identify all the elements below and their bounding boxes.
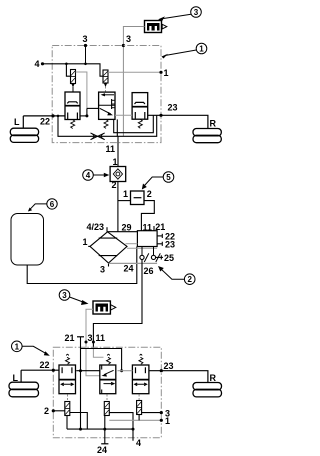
valve A right wire bbox=[80, 115, 87, 117]
svg-text:2: 2 bbox=[44, 406, 49, 416]
svg-text:1: 1 bbox=[15, 342, 20, 351]
port 24 bbox=[104, 416, 106, 444]
spring above valve F bbox=[139, 354, 143, 364]
wire item4 down bbox=[117, 182, 119, 232]
wire valve B drain bbox=[116, 119, 118, 136]
port 23 stub bbox=[157, 240, 175, 250]
svg-text:23: 23 bbox=[164, 361, 174, 371]
svg-text:4: 4 bbox=[86, 171, 91, 180]
svg-text:5: 5 bbox=[166, 173, 171, 182]
svg-text:2: 2 bbox=[147, 189, 152, 199]
pilot valve 2 bbox=[103, 70, 108, 92]
pilot dashed links bbox=[67, 395, 69, 402]
svg-text:1: 1 bbox=[199, 45, 204, 54]
svg-text:29: 29 bbox=[122, 223, 132, 233]
port 21 plug bbox=[65, 333, 85, 429]
svg-text:24: 24 bbox=[97, 445, 107, 455]
L caliper (front left) bbox=[10, 117, 38, 142]
svg-text:23: 23 bbox=[165, 240, 175, 250]
svg-text:11: 11 bbox=[106, 144, 116, 154]
master cylinder (diamond) bbox=[88, 227, 127, 266]
spring above valve D bbox=[66, 354, 70, 364]
svg-text:L: L bbox=[13, 373, 19, 383]
valve C (right inlet valve) bbox=[132, 93, 148, 120]
port 25 stub bbox=[156, 253, 174, 263]
svg-text:2: 2 bbox=[112, 180, 117, 190]
port 22 stub bbox=[157, 232, 175, 242]
wire branch to pilot 1 bbox=[66, 64, 70, 76]
svg-text:25: 25 bbox=[164, 253, 174, 263]
svg-text:3: 3 bbox=[194, 8, 199, 17]
svg-text:4: 4 bbox=[35, 59, 40, 69]
svg-text:1: 1 bbox=[113, 157, 118, 167]
pump unit block bbox=[137, 226, 157, 247]
wire relief to line 3 bbox=[86, 309, 100, 375]
wire node3 down bbox=[85, 46, 87, 64]
spring under valve A bbox=[71, 120, 75, 129]
valve B (middle valve) bbox=[99, 92, 115, 119]
valve D (rear left inlet) bbox=[59, 365, 76, 394]
spring under valve B bbox=[104, 119, 108, 128]
bleed point 25 (right) bbox=[151, 253, 160, 262]
callout 3 (rear relief valve) bbox=[59, 290, 88, 305]
callout 6 bbox=[28, 199, 57, 212]
svg-text:R: R bbox=[210, 119, 217, 129]
gray rail 24 bbox=[109, 262, 158, 264]
bottom rail bbox=[67, 428, 133, 430]
svg-text:3: 3 bbox=[126, 34, 131, 44]
svg-text:L: L bbox=[14, 117, 20, 127]
R caliper (front right) bbox=[193, 119, 221, 143]
wires valve row bottom bbox=[76, 370, 99, 372]
svg-text:6: 6 bbox=[50, 200, 55, 209]
valve G bottom pin bbox=[66, 416, 68, 430]
pilot return gray wires bbox=[76, 72, 87, 108]
brake switch item 5 bbox=[131, 191, 145, 205]
valve C right wire to R bbox=[148, 115, 208, 128]
spring under valve C bbox=[138, 119, 142, 128]
svg-text:22: 22 bbox=[40, 360, 50, 370]
node 11 wire down bbox=[117, 136, 119, 166]
callout 5 bbox=[142, 172, 174, 190]
svg-text:26: 26 bbox=[144, 266, 154, 276]
svg-text:R: R bbox=[210, 373, 217, 383]
valve F (rear right inlet) bbox=[132, 365, 149, 394]
gray link under pump bbox=[127, 247, 157, 249]
callout 4 bbox=[83, 170, 110, 181]
pilot valve G bbox=[65, 402, 70, 416]
accumulator item 6 bbox=[11, 214, 44, 266]
svg-text:1: 1 bbox=[123, 189, 128, 199]
gray link diamond to pump bbox=[126, 243, 138, 245]
svg-text:1: 1 bbox=[165, 416, 170, 426]
wire from relief valve to node 3 bbox=[123, 27, 144, 137]
svg-text:2: 2 bbox=[187, 275, 192, 284]
orifice (bowtie) bbox=[91, 133, 105, 140]
valve I bottom pin bbox=[138, 415, 140, 421]
svg-text:11: 11 bbox=[96, 333, 106, 343]
wire 4 bbox=[43, 64, 104, 76]
node 1 bbox=[159, 71, 162, 74]
wire 29 (item4 line to pump top) bbox=[108, 231, 138, 233]
pressure sensor item 4 bbox=[110, 167, 126, 182]
svg-text:1: 1 bbox=[164, 68, 169, 78]
relief valve item 3 top (M-box) bbox=[145, 21, 167, 33]
wire 22 to valve D and L bbox=[21, 369, 59, 371]
wire to R rear bbox=[149, 371, 208, 383]
svg-text:24: 24 bbox=[124, 264, 134, 274]
svg-text:4: 4 bbox=[136, 438, 141, 448]
item5 left wire bbox=[118, 200, 131, 202]
valve B left wire bbox=[87, 107, 99, 109]
wire 22 to valve A and L bbox=[23, 115, 65, 117]
svg-text:1: 1 bbox=[83, 237, 88, 247]
spring above valve E bbox=[107, 354, 111, 364]
accumulator wire to pump bbox=[27, 247, 137, 284]
valve E (rear middle valve) bbox=[100, 365, 116, 394]
svg-text:23: 23 bbox=[168, 103, 178, 113]
bleed point 26 (left) bbox=[140, 247, 154, 263]
wire 24 down from pump bbox=[93, 260, 142, 349]
svg-text:22: 22 bbox=[40, 117, 50, 127]
callout 3 (top relief valve) bbox=[158, 7, 201, 22]
port 4 bbox=[109, 413, 133, 441]
pilot 2 to node 1 gray wire bbox=[108, 71, 161, 73]
bottom unit dash-dot border bbox=[53, 347, 161, 438]
wire branch to E-F line bbox=[81, 349, 122, 371]
top unit dash-dot border bbox=[52, 46, 161, 143]
svg-text:21: 21 bbox=[65, 333, 75, 343]
lower loop wire P bbox=[58, 115, 157, 136]
svg-text:3: 3 bbox=[62, 291, 67, 300]
svg-text:4/23: 4/23 bbox=[87, 222, 105, 232]
callout 1 (top unit) bbox=[162, 43, 207, 58]
valve A (left inlet valve) bbox=[65, 92, 80, 120]
lower loop wire Q bbox=[114, 115, 154, 132]
pilot valve H bbox=[104, 402, 109, 416]
pilot valve 1 bbox=[71, 70, 76, 93]
port 3 right bbox=[142, 412, 162, 414]
port 1 right gray bbox=[109, 419, 161, 421]
callout 2 bbox=[158, 266, 195, 285]
valve B to valve C gray wire bbox=[115, 114, 132, 116]
svg-text:3: 3 bbox=[88, 333, 93, 343]
relief valve item 3 bottom (M-box) bbox=[93, 301, 116, 314]
valve G right wire bbox=[70, 413, 88, 430]
item5 right wire bbox=[141, 201, 154, 231]
R caliper (rear right) bbox=[193, 373, 222, 397]
svg-text:3: 3 bbox=[83, 34, 88, 44]
pilot valve I bbox=[137, 401, 142, 415]
callout 1 (bottom unit) bbox=[11, 341, 49, 356]
wire 11 pilot into unit bbox=[93, 349, 103, 358]
L caliper (rear left) bbox=[9, 373, 39, 397]
svg-text:3: 3 bbox=[100, 265, 105, 275]
